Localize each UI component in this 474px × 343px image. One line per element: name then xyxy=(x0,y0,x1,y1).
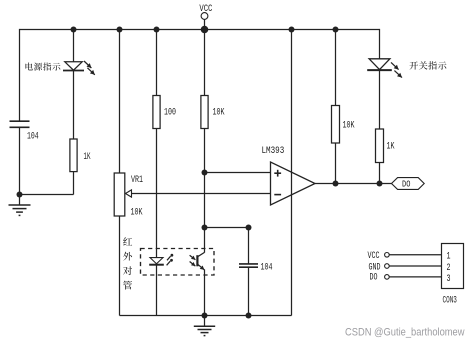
wire rail to VR1 xyxy=(119,30,121,174)
wire bottom ground rail xyxy=(120,315,292,317)
resistor R3 100 xyxy=(153,96,160,129)
capacitor C2 104 xyxy=(239,264,258,267)
phototransistor Q1 xyxy=(190,252,205,270)
wire op-amp output to DO xyxy=(315,183,392,185)
ground symbol left xyxy=(9,195,31,216)
wire junction to op-amp non-inverting input xyxy=(205,172,271,174)
svg-text:CSDN @Gutie_bartholomew: CSDN @Gutie_bartholomew xyxy=(345,327,465,339)
op-amp U1 LM393 xyxy=(271,162,316,205)
wire R3 to IR LED xyxy=(156,129,158,258)
node C2 bottom junction xyxy=(246,313,252,319)
svg-text:1K: 1K xyxy=(84,152,92,163)
svg-text:1K: 1K xyxy=(387,142,396,153)
resistor R4 10K xyxy=(201,96,208,129)
node top rail / VR1 branch xyxy=(117,27,123,33)
wire GND to pin 2 xyxy=(389,265,441,267)
node left ground junction xyxy=(17,192,23,198)
resistor R6 1K xyxy=(376,129,384,163)
svg-text:104: 104 xyxy=(261,263,273,274)
power symbol VCC xyxy=(199,4,212,30)
wire from left ground node to R2 bottom xyxy=(20,194,74,196)
svg-text:10K: 10K xyxy=(213,108,226,119)
wire rail to R3 xyxy=(156,30,158,96)
IR pair dashed enclosure xyxy=(141,249,215,276)
svg-text:DO: DO xyxy=(402,179,411,190)
IR emitter LED D3 xyxy=(149,254,173,265)
wire left column from C1 to ground node xyxy=(19,127,21,194)
wire R4 down to phototransistor xyxy=(204,129,206,253)
resistor R5 10K xyxy=(332,106,340,144)
potentiometer VR1 body xyxy=(114,173,125,216)
node top rail / op-amp supply xyxy=(289,27,295,33)
svg-text:10K: 10K xyxy=(131,208,144,219)
capacitor C1 104 xyxy=(10,121,30,127)
wire R5 to output line xyxy=(335,143,337,184)
svg-text:10K: 10K xyxy=(343,121,356,132)
svg-text:100: 100 xyxy=(164,108,176,119)
svg-text:LM393: LM393 xyxy=(262,146,285,157)
wire op-amp supply column xyxy=(291,30,293,316)
node top rail / R3 branch xyxy=(154,27,160,33)
wire C2 bottom to rail xyxy=(248,267,250,315)
wire rail corner to LED D2 xyxy=(379,29,381,59)
node bottom rail / emitter junction xyxy=(202,313,208,319)
wire top VCC rail xyxy=(20,29,380,31)
wire IR LED to bottom rail xyxy=(156,264,158,315)
label 电源指示 (power indicator) xyxy=(25,62,60,70)
svg-text:2: 2 xyxy=(447,263,451,274)
node non-inverting input junction xyxy=(202,170,208,176)
wire C2 top xyxy=(248,228,250,264)
node top rail / VCC junction xyxy=(201,26,209,34)
wire R2 to ground wire xyxy=(73,172,75,195)
node top rail / D1 branch xyxy=(71,27,77,33)
wire phototransistor emitter to bottom rail xyxy=(204,270,206,316)
pin 3 open terminal xyxy=(385,275,390,280)
svg-text:CON3: CON3 xyxy=(443,296,457,307)
LED D2 switch indicator xyxy=(367,59,402,78)
wire VR1 bottom to bottom rail xyxy=(119,216,121,316)
node output / R6 junction xyxy=(377,181,383,187)
connector CON3 body xyxy=(442,244,464,289)
wire VR1 wiper to op-amp inverting input xyxy=(132,193,271,195)
node C2 top junction xyxy=(246,225,252,231)
resistor R2 1K xyxy=(70,139,77,172)
wire left column from rail to C1 xyxy=(19,29,21,121)
pin 2 open terminal xyxy=(385,264,390,269)
wire DO to pin 3 xyxy=(389,276,441,278)
node top rail / R5 branch xyxy=(333,27,339,33)
wire LED D1 to resistor R2 xyxy=(73,70,75,139)
wire LED D2 to resistor R6 xyxy=(379,70,381,129)
wire VCC to pin 1 xyxy=(389,254,441,256)
pin 1 open terminal xyxy=(385,253,390,258)
svg-text:VR1: VR1 xyxy=(131,175,143,186)
wire R6 to output line xyxy=(379,163,381,184)
wire rail to R5 xyxy=(335,30,337,106)
wire rail to R4 xyxy=(204,30,206,96)
svg-text:VCC: VCC xyxy=(368,251,380,262)
VR1 wiper arrow xyxy=(125,190,131,197)
wire middle junction to C2 top xyxy=(205,227,249,229)
node output / R5 junction xyxy=(333,181,339,187)
LED D1 power indicator xyxy=(63,61,95,75)
svg-text:104: 104 xyxy=(27,132,39,143)
svg-text:3: 3 xyxy=(447,274,451,285)
wire rail to LED D1 xyxy=(73,30,75,62)
net flag DO xyxy=(392,178,425,190)
svg-text:DO: DO xyxy=(370,272,378,283)
node middle junction to C2 xyxy=(202,225,208,231)
ground symbol bottom xyxy=(194,316,215,336)
svg-text:1: 1 xyxy=(447,252,451,263)
label 红外对管 (IR pair) xyxy=(123,237,132,289)
label 开关指示 (switch indicator) xyxy=(409,61,446,69)
